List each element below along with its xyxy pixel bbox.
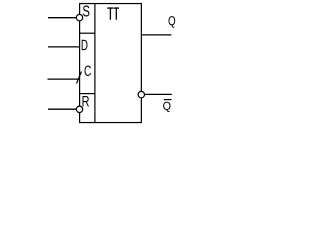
R section divider	[80, 93, 95, 95]
pin label R	[82, 96, 88, 106]
wire C input	[48, 78, 80, 80]
pin label C	[85, 65, 92, 75]
pin label S	[83, 6, 89, 17]
S section divider	[80, 32, 95, 34]
inversion bubble S	[76, 14, 82, 20]
wire S input	[48, 17, 76, 19]
dynamic input slash C	[77, 72, 82, 84]
node label Q	[169, 16, 176, 28]
wire Q output	[141, 34, 171, 36]
flip-flop U1 body	[80, 4, 142, 123]
wire Q-bar output	[145, 93, 172, 95]
inversion bubble Q-bar	[138, 91, 144, 97]
node label Q-bar	[163, 100, 171, 112]
inversion bubble R	[76, 106, 82, 112]
label field divider	[94, 4, 96, 123]
wire D input	[48, 46, 80, 48]
wire R input	[48, 108, 76, 110]
pin label D	[82, 40, 88, 50]
label TT	[107, 7, 119, 19]
